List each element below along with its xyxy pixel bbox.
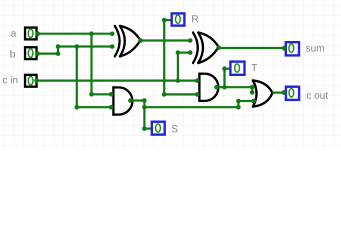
node c in riser corner bbox=[176, 50, 181, 55]
svg-text:a: a bbox=[11, 29, 17, 40]
wire b from pin bbox=[38, 52, 58, 54]
node b jog corner 2 bbox=[56, 44, 61, 49]
node OR top input stub end bbox=[250, 85, 255, 90]
node S corner bottom bbox=[142, 126, 147, 131]
node XOR2 input 2 terminal bbox=[188, 50, 193, 55]
node OR top input stub bottom bbox=[250, 90, 255, 95]
op-gate OR1 (t or s) bbox=[253, 80, 273, 106]
node b pin terminal bbox=[35, 51, 40, 56]
wire XOR2 output to sum bbox=[219, 47, 285, 49]
op-gate XOR2 (r xor cin) bbox=[193, 33, 219, 64]
wire S long horizontal bbox=[144, 106, 238, 108]
input pin a bbox=[25, 28, 37, 40]
wire S rise to OR input bbox=[237, 101, 239, 107]
node OR input 2 terminal bbox=[251, 99, 256, 104]
wire R probe stub bbox=[164, 19, 171, 21]
node a junction bbox=[89, 31, 94, 36]
wire b to XOR1 bbox=[58, 45, 112, 47]
node b junction bbox=[75, 44, 80, 49]
node XOR1 output terminal bbox=[138, 38, 143, 43]
node R probe corner bbox=[162, 18, 167, 23]
node T junction bbox=[222, 85, 227, 90]
wire S vertical bbox=[143, 101, 145, 129]
node a corner at AND1 bbox=[89, 92, 94, 97]
wire OR output to c out bbox=[272, 91, 284, 93]
op-gate AND2 (r and cin) bbox=[198, 73, 218, 102]
node b jog corner 1 bbox=[56, 51, 61, 56]
node c in pin terminal bbox=[34, 78, 39, 83]
wire S to OR bottom input bbox=[238, 100, 253, 102]
wire R probe riser down bbox=[163, 20, 165, 94]
wire R riser to AND2 input bbox=[164, 93, 197, 95]
wire a branch vertical down bbox=[90, 34, 92, 95]
node S rise corner top bbox=[236, 99, 241, 104]
node AND2 input 1 terminal bbox=[195, 78, 200, 83]
input pin b bbox=[25, 47, 37, 59]
output pin R bbox=[172, 13, 185, 25]
wire AND1 output bbox=[130, 99, 144, 101]
output pin c out bbox=[286, 87, 299, 100]
wire c in horizontal to AND2 bbox=[37, 79, 198, 81]
wire XOR1 output to XOR2 input bbox=[140, 39, 190, 41]
node AND2 input 2 terminal bbox=[195, 92, 200, 97]
node AND2 output terminal bbox=[214, 85, 219, 90]
wire a branch to AND1 input bbox=[92, 93, 112, 95]
node a pin terminal bbox=[35, 31, 40, 36]
node AND1 output terminal bbox=[128, 98, 133, 103]
node XOR1 input 1 terminal bbox=[110, 32, 115, 37]
node T probe corner bbox=[222, 66, 227, 71]
node R riser corner bbox=[162, 92, 167, 97]
node S junction top bbox=[142, 98, 147, 103]
node S junction mid bbox=[142, 105, 147, 110]
svg-text:S: S bbox=[171, 124, 178, 135]
output pin sum bbox=[286, 42, 299, 55]
op-gate AND1 (a and b) bbox=[112, 86, 132, 115]
svg-text:sum: sum bbox=[306, 44, 325, 55]
node XOR2 output terminal bbox=[216, 45, 221, 50]
node sum pin terminal bbox=[282, 46, 287, 51]
wire T probe stub bbox=[225, 68, 230, 70]
wire c in to XOR2 input bbox=[178, 51, 190, 53]
wire AND2 output to OR bbox=[217, 86, 253, 88]
wire a horizontal to XOR1 bbox=[38, 33, 113, 35]
node XOR1 input 2 terminal bbox=[110, 44, 115, 49]
svg-text:c out: c out bbox=[306, 91, 328, 102]
wire b branch vertical down bbox=[76, 47, 78, 108]
output pin T bbox=[230, 62, 244, 75]
wire b branch to AND1 input bbox=[77, 106, 111, 108]
op-gate XOR1 (a xor b) bbox=[115, 26, 141, 57]
wire T riser up bbox=[223, 69, 225, 88]
wire OR top input stub down bbox=[251, 87, 253, 92]
node AND1 input 1 terminal bbox=[109, 92, 114, 97]
node b corner at AND1 bbox=[75, 105, 80, 110]
node XOR2 input 1 terminal bbox=[188, 38, 193, 43]
wire c in riser up bbox=[177, 53, 179, 81]
svg-text:b: b bbox=[10, 49, 16, 60]
node AND1 input 2 terminal bbox=[109, 105, 114, 110]
input pin c in bbox=[25, 75, 37, 87]
node c in riser junction bbox=[176, 78, 181, 83]
wire S probe stub bbox=[144, 128, 150, 130]
svg-text:R: R bbox=[191, 14, 198, 25]
svg-text:c in: c in bbox=[2, 75, 18, 86]
svg-text:T: T bbox=[251, 63, 257, 74]
node S rise corner bottom bbox=[236, 105, 241, 110]
node c out pin terminal bbox=[282, 90, 287, 95]
wire b jog up bbox=[57, 47, 59, 54]
output pin S bbox=[152, 122, 165, 135]
